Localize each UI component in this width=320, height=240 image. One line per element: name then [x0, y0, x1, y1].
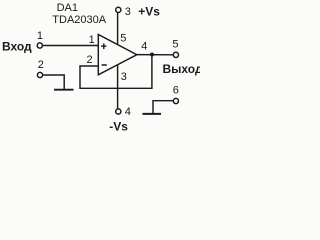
ground bar input: [54, 89, 74, 91]
op-amp non-inverting input plus symbol: [101, 43, 106, 49]
svg-text:Вход: Вход: [2, 40, 32, 54]
wire input terminal 1 to pin 1: [43, 45, 99, 47]
wire output pin 4 to terminal 5: [137, 54, 173, 56]
svg-text:2: 2: [87, 54, 93, 66]
wire pin 2 feedback loop: [80, 55, 152, 89]
op-amp inverting input minus symbol: [102, 64, 107, 66]
wire +Vs terminal 3 to pin 5: [117, 13, 119, 45]
terminal 6 circle: [173, 98, 178, 103]
terminal 1 circle: [37, 43, 42, 48]
svg-text:3: 3: [121, 71, 127, 83]
svg-text:5: 5: [120, 32, 126, 44]
svg-text:1: 1: [37, 30, 43, 42]
svg-text:4: 4: [125, 106, 131, 118]
op-amp DA1 triangle: [98, 35, 137, 75]
svg-text:+Vs: +Vs: [138, 5, 160, 19]
svg-text:4: 4: [141, 41, 147, 53]
terminal 4 circle: [116, 109, 121, 114]
wire terminal 6 to output ground: [153, 101, 173, 113]
svg-text:DA1: DA1: [57, 2, 78, 14]
output junction dot: [150, 53, 154, 57]
svg-text:3: 3: [125, 6, 131, 18]
terminal 5 circle: [173, 52, 178, 57]
svg-text:Выход: Выход: [163, 62, 201, 76]
terminal 2 circle: [37, 72, 42, 77]
svg-text:6: 6: [173, 84, 179, 96]
svg-text:2: 2: [38, 59, 44, 71]
wire pin 3 to -Vs terminal 4: [117, 65, 119, 109]
ground bar output: [143, 113, 162, 115]
terminal 3 circle: [116, 7, 121, 12]
svg-text:TDA2030A: TDA2030A: [52, 14, 106, 26]
svg-text:1: 1: [89, 34, 95, 46]
wire terminal 2 to input ground: [43, 75, 64, 89]
svg-text:-Vs: -Vs: [109, 119, 128, 133]
svg-text:5: 5: [172, 39, 178, 51]
